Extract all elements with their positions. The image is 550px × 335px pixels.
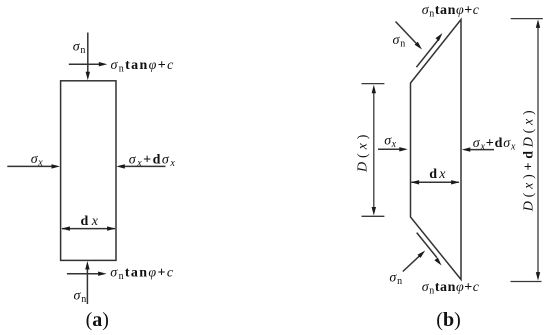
arrow sigma_n bottom line (a): [86, 269, 88, 304]
arrow: shear along bottom slant shaft (b): [417, 233, 437, 258]
svg-text:σx+dσx: σx+dσx: [473, 136, 517, 153]
soil column element (a): [61, 81, 116, 261]
arrowhead top shear (a): [99, 62, 108, 66]
svg-text:(a): (a): [86, 309, 109, 331]
arrowhead bottom slant shear (b): [434, 258, 441, 266]
svg-text:σn: σn: [74, 288, 88, 305]
arrow sigma_x shaft (b): [378, 148, 400, 150]
arrowhead sigma_n top (b): [415, 42, 422, 50]
dimension line dx (a): [62, 228, 115, 230]
arrowhead D(x) down (b): [372, 207, 376, 216]
arrow sigma_n top shaft (b): [396, 22, 417, 45]
arrow sigma_x + d sigma_x (a): [124, 165, 165, 167]
svg-text:dx: dx: [429, 167, 447, 182]
svg-text:σx: σx: [31, 152, 43, 169]
arrowhead bottom shear (a): [98, 272, 107, 276]
svg-text:σx: σx: [384, 134, 396, 151]
soil column element (b): trapezoid: [411, 20, 462, 280]
svg-text:σn: σn: [389, 271, 403, 288]
arrowhead sigma_n bottom (b): [418, 251, 426, 258]
arrow: bottom shear line (a): [67, 273, 99, 275]
arrowhead sigma_x (a): [52, 164, 61, 168]
arrowhead sigma_x+d (b): [462, 147, 471, 151]
arrowhead D(x) up (b): [372, 85, 376, 94]
svg-text:dx: dx: [81, 214, 102, 229]
arrowhead sigma_x+d (a): [116, 164, 125, 168]
arrowhead dx left (b): [411, 180, 420, 184]
arrow sigma_n bottom shaft (b): [403, 256, 420, 272]
arrow: top shear line (a): [69, 63, 100, 65]
arrow sigma_x (a): [7, 165, 52, 167]
wire: top normal-stress line (a): [87, 33, 89, 73]
svg-text:σntanφ+c: σntanφ+c: [111, 58, 175, 75]
svg-text:σx+dσx: σx+dσx: [129, 153, 176, 170]
arrowhead sigma_n bottom (a): [85, 261, 89, 270]
tick top of D(x)+dD(x) (b): [511, 18, 543, 20]
tick bottom of D(x) (b): [362, 215, 385, 217]
svg-text:(b): (b): [436, 309, 460, 331]
svg-text:D(x)+dD(x): D(x)+dD(x): [522, 107, 537, 213]
arrowhead D+dD up (b): [536, 19, 540, 28]
arrowhead dx right (a): [107, 226, 116, 230]
svg-text:σntanφ+c: σntanφ+c: [110, 265, 174, 282]
dimension D(x)+dD(x) line (b): [537, 27, 539, 273]
arrowhead sigma_x (b): [399, 147, 408, 151]
dimension line dx (b): [411, 181, 458, 183]
tick top of D(x) (b): [362, 83, 385, 85]
arrowhead top slant shear (b): [436, 33, 443, 41]
svg-text:D(x): D(x): [356, 131, 371, 173]
dimension D(x) line (b): [373, 93, 375, 208]
arrowhead dx right (b): [451, 180, 460, 184]
arrowhead D+dD down (b): [536, 272, 540, 281]
svg-text:σntanφ+c: σntanφ+c: [422, 3, 480, 20]
arrowhead dx left (a): [61, 226, 70, 230]
arrow sigma_x + d sigma_x shaft (b): [470, 149, 494, 151]
tick bottom of D(x)+dD(x) (b): [511, 281, 542, 283]
svg-text:σn: σn: [73, 39, 87, 56]
svg-text:σntanφ+c: σntanφ+c: [422, 280, 480, 297]
arrowhead sigma_n top (a): [86, 72, 90, 81]
arrow: shear along top slant shaft (b): [416, 39, 438, 67]
svg-text:σn: σn: [393, 33, 407, 50]
